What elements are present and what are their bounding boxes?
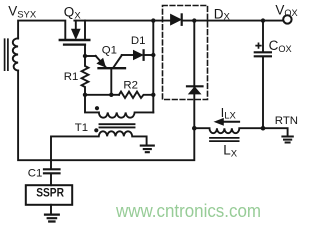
- wire SSPR to ground: [50, 205, 52, 214]
- node: DX cathode junction: [192, 18, 196, 22]
- transformer T1 core lines: [100, 124, 135, 127]
- transistor Q1 (PNP): [96, 55, 125, 95]
- node: RTN junction: [261, 126, 266, 131]
- resistor R1: [82, 56, 89, 95]
- node: switch node junction: [192, 126, 197, 131]
- node: gate/R1/Q1 junction: [83, 54, 87, 58]
- node: rail to D1 vertical: [151, 18, 155, 22]
- svg-text:Q1: Q1: [102, 44, 117, 56]
- svg-text:C1: C1: [28, 168, 43, 180]
- svg-text:SSPR: SSPR: [36, 188, 64, 200]
- ground RTN: [282, 137, 292, 143]
- capacitor COX: [255, 21, 271, 129]
- plus sign COX: [256, 43, 261, 48]
- phase dot T1 lower: [94, 128, 98, 132]
- svg-text:T1: T1: [75, 122, 88, 134]
- svg-text:www.cntronics.com: www.cntronics.com: [115, 200, 261, 221]
- phase dot T1 upper: [95, 106, 99, 110]
- diode D1: [122, 50, 154, 60]
- transformer primary winding: [13, 38, 18, 70]
- svg-text:RTN: RTN: [275, 115, 298, 127]
- inductor LX core lines: [210, 138, 239, 141]
- node: COX top junction: [261, 18, 265, 22]
- wire vertical node (rail to T1 upper right): [152, 21, 154, 113]
- capacitor C1: [44, 160, 60, 185]
- node: R2 right junction: [151, 93, 155, 97]
- resistor R2: [119, 92, 153, 98]
- ground SSPR: [45, 215, 59, 222]
- node: Q1 base junction: [109, 93, 113, 97]
- svg-text:R2: R2: [123, 79, 138, 91]
- wire QX gate to Q1 emitter: [85, 55, 96, 57]
- arrow ILX: [215, 119, 239, 125]
- wire top rail left (VSYX to QX source): [18, 21, 65, 39]
- node: R1 bottom junction: [83, 93, 87, 97]
- ground T1 secondary: [141, 146, 154, 153]
- node: D1 cathode to vertical: [151, 53, 155, 57]
- transformer T1 lower winding: [51, 131, 147, 160]
- wire mid rail (R1 to R2): [85, 94, 119, 96]
- wire top rail right (QX drain to VOX): [74, 20, 283, 22]
- dashed box: [163, 6, 208, 100]
- inductor LX: [194, 128, 263, 133]
- diode DX: [171, 14, 182, 24]
- svg-text:R1: R1: [64, 71, 79, 83]
- wire RTN: [263, 128, 288, 136]
- wire primary bottom to bottom rail: [18, 71, 194, 161]
- block SSPR: [26, 185, 72, 205]
- freewheeling diode (in dashed box): [187, 21, 203, 129]
- transistor QX (P-MOSFET): [60, 21, 90, 56]
- terminal VOX (open circle): [283, 15, 291, 23]
- svg-text:D1: D1: [131, 35, 146, 47]
- transformer primary core lines: [5, 39, 8, 70]
- wire T1 upper left lead: [85, 95, 99, 113]
- transformer T1 upper winding: [99, 112, 154, 117]
